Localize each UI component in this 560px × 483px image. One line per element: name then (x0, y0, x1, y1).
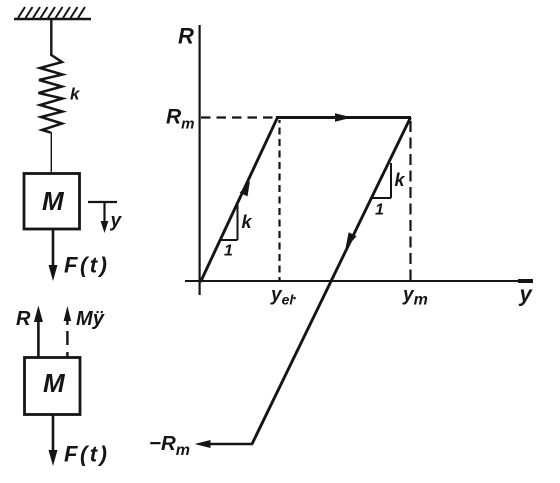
spring upper rod (50, 19, 52, 56)
svg-text:Mÿ: Mÿ (76, 308, 106, 330)
svg-text:y: y (110, 211, 123, 232)
R axis (199, 25, 201, 295)
dot after y_el (293, 297, 296, 300)
plastic plateau line (276, 116, 411, 119)
unloading line (252, 118, 411, 445)
svg-text:k: k (70, 85, 81, 104)
force arrow F(t) lower (49, 415, 58, 466)
dashed line y_el vertical (278, 120, 280, 281)
svg-text:Rm: Rm (166, 106, 195, 133)
svg-text:1: 1 (375, 202, 384, 219)
slope triangle 2 (unloading) (371, 163, 391, 198)
fbd inertia dashed arrow (64, 306, 72, 357)
plateau arrowhead (335, 113, 352, 121)
elastic loading line (201, 118, 278, 283)
svg-text:1: 1 (224, 243, 233, 260)
svg-text:F(t): F(t) (64, 253, 109, 278)
svg-text:R: R (178, 24, 194, 49)
rod spring to mass (50, 132, 52, 173)
y axis (185, 280, 533, 282)
svg-text:ym: ym (402, 285, 428, 309)
svg-text:R: R (16, 308, 31, 330)
svg-text:F(t): F(t) (64, 442, 109, 467)
unloading arrowhead (346, 232, 357, 248)
mass M (upper) (24, 174, 80, 230)
svg-text:yel: yel (270, 285, 294, 308)
displacement datum line (88, 201, 117, 203)
dashed line y_m vertical (409, 121, 411, 280)
fbd reaction arrow R (34, 306, 43, 358)
elastic line arrowhead (240, 181, 250, 196)
svg-text:y: y (519, 282, 534, 307)
svg-text:M: M (43, 368, 66, 398)
svg-text:−Rm: −Rm (149, 432, 190, 459)
-Rm horizontal arrow (195, 440, 254, 448)
svg-text:k: k (242, 212, 253, 232)
ceiling hatching (18, 7, 85, 18)
force arrow F(t) upper (49, 230, 58, 281)
displacement arrow y (101, 202, 109, 233)
dashed line Rm level (201, 116, 274, 118)
svg-text:k: k (395, 170, 406, 190)
ceiling line (14, 18, 91, 21)
mass M (fbd) (25, 358, 81, 415)
slope triangle 1 (elastic) (221, 204, 238, 240)
y axis end tick (518, 279, 533, 283)
spring k (39, 55, 63, 133)
svg-text:M: M (42, 186, 65, 216)
